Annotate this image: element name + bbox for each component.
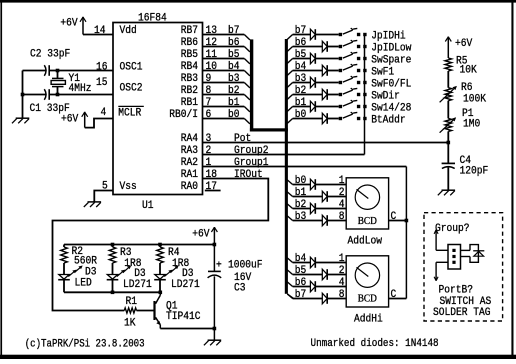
svg-text:13: 13 [206, 25, 218, 37]
resistor R4 [159, 245, 161, 248]
capacitor C3 electrolytic [213, 245, 215, 272]
diode 1N4148 on BCD row b6 [310, 281, 315, 292]
arrow to PortB [435, 262, 437, 280]
switch BtAddr [339, 117, 342, 120]
svg-text:AddHi: AddHi [354, 314, 383, 326]
bus entry switch row b3 [287, 83, 292, 88]
svg-text:10K: 10K [460, 65, 477, 77]
svg-text:b4: b4 [228, 61, 240, 73]
bus entry switch row b2 [287, 95, 292, 100]
resistor R6 variable [445, 88, 452, 101]
wire RB2 pin stub [203, 94, 245, 96]
dashed box switch-as-solder-tag [424, 213, 503, 321]
wire diode to switch SwF0/FL [315, 82, 338, 84]
svg-text:R6: R6 [461, 82, 473, 94]
bus entry switch row b7 [287, 35, 292, 40]
svg-text:BtAddr: BtAddr [371, 115, 406, 127]
resistor R2 [63, 245, 65, 248]
wire b6 to diode [293, 286, 311, 288]
bus entry switch row b0 [287, 119, 292, 124]
svg-text:OSC1: OSC1 [120, 62, 143, 74]
diode in solder tag box [470, 245, 478, 263]
wire b4 to diode [293, 262, 311, 264]
svg-text:15: 15 [96, 77, 108, 89]
bus entry b2 BCD row [287, 204, 292, 209]
svg-text:SwF1: SwF1 [371, 67, 394, 79]
wire diode to BCD input weight 4 [315, 286, 346, 288]
wire R6 to P1 [447, 101, 449, 119]
bus bottom entry to b7 BCD row [287, 294, 293, 299]
wire b7 to diode [293, 34, 311, 36]
bus entry switch row b4 [287, 71, 292, 76]
svg-text:Vss: Vss [120, 181, 137, 193]
svg-text:+6V: +6V [60, 18, 77, 30]
BCD switch AddHi body [346, 256, 388, 307]
diode 1N4148 on row b4 [322, 65, 327, 76]
node rail +6V C3 top [213, 243, 217, 247]
wire LED LD271 to bottom rail [159, 280, 161, 293]
wire RB0 pin stub [203, 118, 245, 120]
svg-text:SwF0/FL: SwF0/FL [371, 79, 411, 91]
svg-text:2: 2 [339, 187, 345, 199]
bus entry b0 BCD row [287, 180, 292, 185]
svg-text:C3: C3 [234, 282, 246, 294]
IC U1 16F84 body [113, 23, 203, 195]
svg-text:1: 1 [339, 253, 345, 265]
svg-text:Group?: Group? [435, 223, 470, 235]
svg-text:MCLR: MCLR [118, 108, 141, 120]
svg-text:Sw14/28: Sw14/28 [371, 103, 411, 115]
wire OSC1 left segment [23, 70, 47, 72]
capacitor C2 [44, 65, 46, 76]
node AddLow C junction [405, 219, 409, 223]
svg-text:8: 8 [339, 211, 345, 223]
svg-text:8: 8 [339, 289, 345, 301]
wire IROut RA1 route to R1 [53, 179, 269, 311]
wire RB3 pin stub [203, 82, 245, 84]
wire b3 to diode [293, 220, 323, 222]
transistor Q1 TIP41C [153, 301, 155, 320]
diode 1N4148 on row b7 [310, 29, 315, 40]
wire diode to switch BtAddr [327, 118, 339, 120]
node C1 left junction [21, 93, 25, 97]
wire R2 to LED [63, 263, 65, 275]
BCD switch AddLow body [346, 178, 388, 229]
bus entry b3 BCD row [287, 216, 292, 221]
svg-text:+6V: +6V [61, 114, 78, 126]
wire OSC1 pin 16 [49, 70, 113, 72]
svg-text:RA1: RA1 [181, 169, 198, 181]
wire RB5 pin stub [203, 58, 245, 60]
bus entry RB3 [244, 83, 250, 88]
wire b2 to diode [293, 208, 311, 210]
diode 1N4148 on BCD row b3 [322, 215, 327, 226]
LED D3 LD271 [107, 275, 117, 280]
svg-text:U1: U1 [142, 200, 154, 212]
wire b1 to diode [293, 106, 311, 108]
svg-text:4: 4 [101, 107, 107, 119]
bus entry switch row b6 [287, 47, 292, 52]
svg-text:7: 7 [206, 97, 212, 109]
wire R3 to LED [112, 263, 114, 275]
diode 1N4148 on row b1 [310, 101, 315, 112]
switch Sw14/28 [339, 105, 342, 108]
node OSC2-C1-Y1 junction [56, 93, 60, 97]
svg-text:Unmarked diodes: 1N4148: Unmarked diodes: 1N4148 [311, 338, 439, 350]
svg-text:+: + [216, 261, 222, 272]
wire tag block middle to diode loop [461, 256, 471, 258]
node bottom rail R3 [111, 291, 115, 295]
wire b0 to diode [293, 184, 311, 186]
wire R4 to LED [159, 263, 161, 275]
wire diode to switch SwF1 [327, 70, 339, 72]
svg-text:BCD: BCD [358, 294, 377, 305]
svg-text:4MHz: 4MHz [69, 83, 92, 95]
svg-text:RB6: RB6 [181, 37, 198, 49]
svg-text:16F84: 16F84 [138, 13, 167, 25]
wire b7 to diode [293, 298, 323, 300]
svg-text:RB5: RB5 [181, 49, 198, 61]
bus join bar [250, 128, 288, 131]
wire b5 to diode [293, 58, 311, 60]
wire diode to BCD input weight 2 [327, 274, 346, 276]
wire RB1 pin stub [203, 106, 245, 108]
svg-text:RA0: RA0 [181, 181, 198, 193]
svg-text:RA2: RA2 [181, 157, 198, 169]
svg-text:6: 6 [206, 109, 212, 121]
wire diode to switch SwDir [327, 94, 339, 96]
wire Group1 RA2 to BCD common [203, 166, 407, 168]
diode 1N4148 on BCD row b5 [322, 269, 327, 280]
wire Vss pin 5 [94, 191, 113, 202]
diode 1N4148 on row b2 [322, 89, 327, 100]
bus entry RB0 [244, 119, 250, 124]
svg-text:9: 9 [206, 73, 212, 85]
bus entry RB6 [244, 47, 250, 52]
node bottom rail collector [159, 291, 163, 295]
svg-text:120pF: 120pF [460, 166, 489, 178]
wire diode to BCD input weight 4 [315, 208, 346, 210]
svg-text:b5: b5 [228, 49, 240, 61]
svg-text:PortB?: PortB? [439, 285, 474, 297]
wire oscillator left vertical [22, 71, 24, 119]
svg-text:LED: LED [75, 278, 92, 290]
svg-text:12: 12 [206, 37, 218, 49]
wire C terminal of AddHi [389, 298, 407, 300]
ground at Vss [88, 201, 102, 203]
switch SwDir [339, 93, 342, 96]
bus entry RB1 [244, 107, 250, 112]
svg-text:b0: b0 [228, 109, 240, 121]
diode 1N4148 on BCD row b4 [310, 257, 315, 268]
solder tag block [448, 245, 461, 270]
bus entry RB4 [244, 71, 250, 76]
wire Group to tag block [436, 249, 448, 251]
svg-text:OSC2: OSC2 [120, 83, 143, 95]
bus entry RB7 [244, 35, 250, 40]
LED D3 LD271 [155, 275, 165, 280]
LED D3 LED [59, 275, 69, 280]
ground at C3 [208, 339, 222, 341]
svg-text:1K: 1K [124, 318, 136, 330]
switch SwSpare [339, 57, 342, 60]
wire Q1 emitter to ground node [160, 328, 214, 330]
wire diode to BCD input weight 8 [327, 298, 346, 300]
diode 1N4148 on BCD row b2 [310, 203, 315, 214]
wire C terminal of AddLow [389, 220, 407, 222]
svg-text:b3: b3 [228, 73, 240, 85]
wire OSC2 pin 15 [49, 94, 113, 96]
wire b6 to diode [293, 46, 323, 48]
svg-text:RB4: RB4 [181, 61, 198, 73]
svg-text:1000uF: 1000uF [228, 259, 263, 271]
svg-text:11: 11 [206, 49, 218, 61]
wire RA0 stub [205, 190, 221, 192]
svg-text:RB0/I: RB0/I [169, 109, 198, 121]
diode 1N4148 on row b0 [322, 113, 327, 124]
svg-text:RA3: RA3 [181, 145, 198, 157]
BCD AddLow dial [355, 185, 379, 209]
wire diode to BCD input weight 2 [327, 196, 346, 198]
svg-text:SwDir: SwDir [371, 91, 400, 103]
wire diode to switch JpIDLow [327, 46, 339, 48]
wire diode to BCD input weight 1 [315, 262, 346, 264]
node emitter C3 junction [213, 327, 217, 331]
svg-text:RB2: RB2 [181, 85, 198, 97]
wire LED LD271 to bottom rail [112, 280, 114, 293]
switch JpIDLow [339, 45, 342, 48]
wire P1 to C4 [447, 131, 449, 163]
switch JpIDHi [339, 33, 342, 36]
svg-text:Vdd: Vdd [120, 25, 137, 37]
svg-text:2: 2 [339, 265, 345, 277]
svg-text:b6: b6 [228, 37, 240, 49]
svg-text:LD271: LD271 [171, 279, 200, 291]
svg-text:1: 1 [339, 175, 345, 187]
wire tag block top to diode loop [461, 249, 471, 251]
svg-text:TIP41C: TIP41C [166, 311, 201, 323]
wire R5 to R6 [447, 71, 449, 88]
wire LED LED to bottom rail [63, 280, 65, 293]
svg-text:JpIDHi: JpIDHi [371, 31, 406, 43]
wire Pot RA4 to P1 [203, 142, 449, 144]
svg-text:AddLow: AddLow [348, 236, 383, 248]
bus from RB pins (left) [250, 39, 253, 131]
BCD AddHi dial [355, 263, 379, 287]
svg-text:RB3: RB3 [181, 73, 198, 85]
wire diode to switch Sw14/28 [315, 106, 338, 108]
svg-text:100K: 100K [463, 93, 486, 105]
diode 1N4148 on row b3 [310, 77, 315, 88]
wire Vdd pin 14 [83, 34, 113, 36]
diode 1N4148 on BCD row b7 [322, 293, 327, 304]
wire C4 to ground [447, 167, 449, 190]
bus entry b1 BCD row [287, 192, 292, 197]
svg-text:BCD: BCD [358, 216, 377, 227]
bus entry RB5 [244, 59, 250, 64]
ground at oscillator [16, 117, 30, 119]
power +6V symbol at MCLR [84, 112, 86, 128]
svg-text:4: 4 [339, 199, 345, 211]
wire b4 to diode [293, 70, 323, 72]
diode 1N4148 on row b5 [310, 53, 315, 64]
svg-text:R1: R1 [126, 296, 138, 308]
node OSC1-C2-Y1 junction [56, 69, 60, 73]
diode 1N4148 on row b6 [322, 41, 327, 52]
bus entry b6 BCD row [287, 282, 292, 287]
bus entry switch row b5 [287, 59, 292, 64]
svg-text:RB1: RB1 [181, 97, 198, 109]
diode 1N4148 on BCD row b0 [310, 179, 315, 190]
wire OSC2 left segment [23, 94, 47, 96]
switch SwF1 [339, 69, 342, 72]
svg-text:b7: b7 [228, 25, 240, 37]
wire MCLR pin 4 step [85, 119, 113, 128]
wire RB4 pin stub [203, 70, 245, 72]
resistor R5 [445, 58, 452, 71]
svg-text:SOLDER TAG: SOLDER TAG [433, 307, 491, 319]
wire b3 to diode [293, 82, 311, 84]
svg-text:SwSpare: SwSpare [371, 55, 411, 67]
potentiometer P1 [445, 118, 452, 131]
bus entry switch row b1 [287, 107, 292, 112]
power +6V symbol at Vdd [82, 17, 84, 35]
wire Group2 RA3 to switch rail [203, 154, 365, 156]
resistor R1 [124, 308, 136, 313]
arrow to Group [435, 230, 437, 250]
svg-text:RA4: RA4 [181, 133, 198, 145]
ground at C4 [442, 189, 456, 191]
svg-text:LD271: LD271 [123, 279, 152, 291]
wire BCD common vertical [405, 167, 407, 299]
svg-text:16: 16 [96, 62, 108, 74]
wire b5 to diode [293, 274, 323, 276]
svg-text:(c)TaPRK/PSi 23.8.2003: (c)TaPRK/PSi 23.8.2003 [25, 339, 145, 351]
diode 1N4148 on BCD row b1 [322, 191, 327, 202]
wire LED bottom rail [64, 291, 160, 293]
svg-text:C2 33pF: C2 33pF [30, 49, 70, 61]
bus entry RB2 [244, 95, 250, 100]
wire diode to BCD input weight 1 [315, 184, 346, 186]
wire diode to switch JpIDHi [315, 34, 338, 36]
resistor R3 [112, 245, 114, 248]
svg-text:8: 8 [206, 85, 212, 97]
wire b0 to diode [293, 118, 323, 120]
power +6V at R5 [447, 37, 449, 59]
svg-text:+6V: +6V [192, 228, 209, 240]
wire LED top rail [64, 244, 214, 246]
bus entry b7 BCD row [287, 294, 292, 299]
wire RB7 pin stub [203, 34, 245, 36]
svg-text:JpIDLow: JpIDLow [371, 43, 411, 55]
svg-text:+6V: +6V [455, 38, 472, 50]
wire b1 to diode [293, 196, 323, 198]
svg-text:b1: b1 [228, 97, 240, 109]
svg-text:1M0: 1M0 [463, 118, 480, 130]
bus right vertical [285, 39, 288, 294]
power +6V at LED rail [213, 227, 215, 245]
svg-text:4: 4 [339, 277, 345, 289]
bus entry b4 BCD row [287, 258, 292, 263]
wire RB6 pin stub [203, 46, 245, 48]
crystal Y1 [57, 71, 59, 79]
capacitor C1 [44, 89, 46, 100]
wire switch common rail [364, 35, 366, 155]
wire R1 to Q1 base [137, 310, 154, 312]
wire diode to switch SwSpare [315, 58, 338, 60]
bus entry b5 BCD row [287, 270, 292, 275]
node Pot wire junction [447, 141, 451, 145]
node rail R4 top [158, 243, 162, 247]
wire b2 to diode [293, 94, 323, 96]
wire C3 to ground [213, 276, 215, 340]
svg-text:RB7: RB7 [181, 25, 198, 37]
node rail R3 top [111, 243, 115, 247]
capacitor C4 [442, 162, 455, 164]
svg-text:b2: b2 [228, 85, 240, 97]
wire diode to BCD input weight 8 [327, 220, 346, 222]
wire PortB to tag block [436, 261, 448, 263]
svg-text:10: 10 [206, 61, 218, 73]
switch SwF0/FL [339, 81, 342, 84]
